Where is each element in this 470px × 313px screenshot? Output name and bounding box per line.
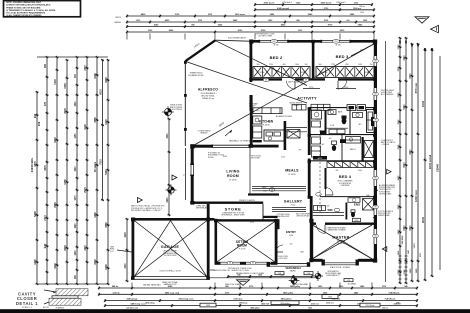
svg-text:SOLID CORE: SOLID CORE	[278, 256, 288, 258]
svg-text:FL 47 86: FL 47 86	[239, 249, 246, 251]
hip diagonal to living corner	[193, 43, 376, 146]
window tag W16 bed2	[271, 39, 278, 43]
survey symbol mid-left	[168, 187, 175, 194]
svg-text:900: 900	[44, 63, 47, 68]
svg-text:4060: 4060	[93, 259, 97, 265]
wall: store west stub	[207, 204, 210, 219]
tag oval 1	[263, 78, 269, 82]
wall: sitting east	[275, 219, 278, 264]
svg-text:10910: 10910	[423, 100, 425, 107]
svg-text:FL 46 86: FL 46 86	[288, 174, 295, 176]
svg-text:TO LOCAL AUTHORITY REQUIREMENT: TO LOCAL AUTHORITY REQUIREMENTS	[6, 12, 46, 15]
svg-text:3440: 3440	[54, 263, 57, 269]
sitting diagonals	[217, 222, 275, 262]
living wall dim line	[185, 148, 187, 200]
wall: gallery/meals stub	[248, 193, 279, 195]
garage door lines	[134, 276, 207, 278]
svg-text:3690: 3690	[104, 77, 108, 83]
svg-text:3130: 3130	[167, 133, 169, 139]
tag oval 8	[373, 234, 379, 238]
svg-text:FL 46 86: FL 46 86	[229, 179, 236, 181]
svg-text:TINTED GLASS: TINTED GLASS	[379, 192, 392, 195]
svg-text:1930: 1930	[410, 268, 412, 274]
gallery shelf lines	[252, 188, 306, 190]
svg-text:DETAIL 1: DETAIL 1	[16, 301, 38, 306]
bottom black border bar	[0, 309, 470, 313]
svg-text:1430 keep: 1430 keep	[239, 302, 248, 305]
bed4 robe row	[327, 162, 374, 168]
svg-text:3640: 3640	[53, 137, 57, 143]
meals west bulkhead line	[249, 148, 251, 194]
svg-text:side bdry road: side bdry road	[126, 307, 138, 309]
svg-text:2930: 2930	[64, 108, 67, 114]
wall: entry east stub	[278, 219, 280, 229]
wall: bath south	[309, 134, 374, 136]
svg-text:1630: 1630	[328, 297, 332, 299]
tag oval 6	[373, 176, 379, 180]
svg-text:W9: W9	[374, 94, 376, 96]
svg-text:890: 890	[346, 64, 349, 66]
wall: garage north	[132, 218, 215, 221]
svg-text:W9: W9	[374, 178, 376, 180]
bed2 door arc	[287, 81, 296, 90]
wall: store east	[262, 204, 264, 220]
bath top cupboards	[311, 104, 330, 110]
svg-text:2980: 2980	[54, 202, 57, 208]
svg-text:4140: 4140	[124, 232, 127, 238]
right dim line top blobs	[399, 41, 401, 44]
tag oval gallery	[269, 188, 275, 192]
svg-text:100 altars: 100 altars	[94, 161, 97, 172]
wall: living north	[191, 145, 213, 148]
wall: bed4 west	[325, 168, 327, 189]
svg-text:SPLAY: SPLAY	[208, 156, 214, 159]
svg-text:1210: 1210	[414, 243, 416, 249]
bath fixtures	[367, 110, 375, 133]
dashed wall line	[319, 122, 321, 214]
svg-text:730 mc: 730 mc	[382, 307, 388, 309]
svg-text:MASTER: MASTER	[332, 235, 349, 239]
svg-text:KITCHEN: KITCHEN	[259, 120, 274, 124]
svg-text:W9: W9	[374, 61, 376, 63]
svg-text:19c SETDOWN: 19c SETDOWN	[164, 255, 177, 257]
tag box dcb 3	[344, 279, 353, 282]
svg-text:W9: W9	[305, 80, 307, 82]
svg-text:4200 bed 2: 4200 bed 2	[336, 2, 345, 4]
wall: bed2/bed3 divider	[312, 42, 315, 78]
wall: sitting west	[215, 219, 218, 264]
svg-text:6510: 6510	[99, 89, 102, 95]
svg-text:7140 Woods: 7140 Woods	[366, 305, 375, 307]
svg-text:3490: 3490	[93, 73, 97, 79]
svg-text:2 FOOTINGS: 2 FOOTINGS	[170, 109, 182, 111]
wall: below bedrooms	[250, 78, 283, 80]
svg-text:1230: 1230	[75, 250, 77, 256]
svg-text:4700 bed 3: 4700 bed 3	[282, 2, 291, 4]
svg-text:W20: W20	[355, 220, 359, 222]
svg-text:W9: W9	[265, 80, 267, 82]
svg-text:22610 overall: 22610 overall	[429, 155, 432, 170]
svg-text:1450: 1450	[295, 64, 299, 66]
activity dim 2730	[336, 88, 356, 90]
svg-text:4550: 4550	[93, 117, 97, 123]
svg-text:BED 3: BED 3	[336, 54, 349, 59]
svg-text:2630: 2630	[85, 245, 87, 251]
svg-text:4120: 4120	[104, 119, 108, 125]
svg-text:4870: 4870	[43, 165, 47, 171]
gallery shelf lines low	[272, 207, 306, 209]
svg-text:890: 890	[191, 25, 194, 27]
master tag W20	[353, 218, 361, 221]
svg-text:890: 890	[283, 64, 286, 66]
alfresco left edge	[184, 61, 186, 146]
svg-text:940 do: 940 do	[112, 285, 119, 288]
svg-text:W9: W9	[374, 120, 376, 122]
wall: garage east	[207, 218, 210, 280]
svg-text:2030: 2030	[85, 65, 87, 71]
svg-text:1450: 1450	[358, 64, 362, 66]
svg-text:ROOM: ROOM	[237, 244, 247, 248]
alfresco pier dim line	[168, 119, 170, 215]
svg-text:2110 ens: 2110 ens	[326, 303, 334, 305]
svg-text:1630: 1630	[75, 166, 77, 172]
svg-text:SHELVING UNIT: SHELVING UNIT	[277, 216, 290, 218]
wall: ens/wir divider	[346, 203, 348, 220]
svg-text:4L 940: 4L 940	[335, 45, 340, 47]
svg-text:1) BRICK VNR DWELLING (FOOTING: 1) BRICK VNR DWELLING (FOOTINGS/SLAB &	[6, 4, 51, 7]
wall: sitting north	[215, 219, 278, 221]
svg-text:ENTRY: ENTRY	[286, 230, 296, 234]
svg-text:900: 900	[329, 138, 332, 140]
svg-text:5480 living room: 5480 living room	[131, 303, 146, 306]
wall: sitting south (window)	[215, 262, 221, 265]
svg-text:3400 gallery: 3400 gallery	[281, 298, 293, 301]
svg-text:SUN: SUN	[289, 235, 294, 237]
wall: ens north	[320, 196, 374, 198]
right leader lines	[374, 190, 378, 192]
svg-text:ALL OPENINGS: ALL OPENINGS	[381, 93, 394, 96]
svg-text:OVERSIZE: OVERSIZE	[340, 185, 350, 187]
svg-text:21940 BRL: 21940 BRL	[30, 157, 34, 172]
triangle symbol veranda	[237, 280, 250, 286]
tag oval 7	[373, 205, 379, 209]
svg-text:1450: 1450	[74, 133, 77, 139]
svg-text:2110 ens: 2110 ens	[311, 304, 319, 306]
living north sill blocks	[212, 145, 214, 148]
tag oval 3	[373, 59, 379, 63]
svg-text:4140 along: 4140 along	[145, 302, 154, 305]
svg-text:3400 gallery: 3400 gallery	[280, 302, 289, 305]
svg-text:1730: 1730	[398, 44, 400, 50]
svg-text:2310: 2310	[398, 119, 400, 125]
svg-text:COMPLIANCE PT: COMPLIANCE PT	[326, 274, 340, 277]
svg-text:5140: 5140	[403, 104, 406, 110]
garage width dim line	[126, 219, 128, 281]
svg-text:2710: 2710	[44, 215, 47, 221]
svg-text:GALLERY: GALLERY	[284, 200, 303, 204]
svg-text:1110: 1110	[75, 223, 77, 229]
bottom dimension string block	[99, 287, 417, 289]
svg-text:1640: 1640	[74, 101, 77, 107]
svg-text:3470: 3470	[397, 175, 400, 181]
svg-text:2730: 2730	[398, 92, 400, 98]
wall: entry north	[263, 216, 278, 218]
svg-text:1210 do: 1210 do	[112, 292, 120, 294]
gas leader	[117, 250, 132, 252]
svg-text:3640: 3640	[358, 170, 362, 172]
kitchen fixtures left	[253, 116, 262, 124]
svg-text:FL 46: FL 46	[291, 205, 296, 207]
wall junction blobs	[249, 40, 253, 44]
svg-text:11910: 11910	[423, 216, 425, 223]
svg-text:900: 900	[257, 64, 260, 66]
wall: living west	[191, 145, 194, 165]
svg-text:GARAGE: GARAGE	[161, 245, 180, 249]
robe row bed3	[316, 67, 374, 78]
svg-text:+ CEILING: + CEILING	[381, 144, 390, 146]
boundary line right of wall	[385, 41, 387, 282]
wall: right outer (with windows)	[374, 40, 377, 56]
wall: living south / store north	[191, 202, 264, 204]
svg-text:SCALE 1:5: SCALE 1:5	[22, 306, 33, 309]
svg-text:7140 Woods: 7140 Woods	[389, 291, 400, 294]
svg-text:1030: 1030	[360, 12, 364, 14]
svg-text:1930: 1930	[416, 268, 418, 274]
wall: garage west	[132, 218, 135, 280]
wall: bath divider 2	[349, 108, 351, 135]
svg-text:4140: 4140	[403, 55, 406, 61]
bed3 leader to corner	[351, 44, 374, 56]
svg-text:4390: 4390	[33, 259, 37, 265]
ens fixtures	[363, 199, 374, 211]
wall: bedrooms top (with windows)	[250, 40, 260, 43]
svg-text:1030: 1030	[363, 20, 367, 22]
svg-text:948: 948	[37, 121, 41, 126]
window tag W14 bed3	[333, 39, 340, 43]
svg-text:4200 bed 2: 4200 bed 2	[321, 2, 332, 5]
svg-text:2730: 2730	[269, 64, 273, 66]
svg-text:6420: 6420	[409, 73, 412, 79]
svg-text:2630: 2630	[64, 245, 67, 251]
wall: kitchen east	[284, 121, 287, 150]
svg-text:6310: 6310	[410, 225, 412, 231]
tag oval 5	[373, 118, 379, 122]
svg-text:2170 door: 2170 door	[234, 299, 243, 301]
svg-text:4700 bed 3: 4700 bed 3	[264, 2, 275, 5]
svg-text:4140 garage: 4140 garage	[127, 298, 138, 301]
tag oval 10	[250, 261, 256, 265]
tag oval 9	[227, 261, 233, 265]
bath appliance boxes	[347, 105, 356, 111]
triangle marker right mid	[387, 169, 391, 174]
svg-text:4390: 4390	[93, 212, 97, 218]
svg-text:FRAME TO ENG. DET. BY BUILDER): FRAME TO ENG. DET. BY BUILDER)	[6, 6, 40, 9]
triangle marker right low	[382, 247, 386, 252]
top dimension string block	[255, 4, 372, 6]
svg-text:3160: 3160	[104, 264, 108, 270]
svg-text:2140: 2140	[403, 269, 406, 275]
wir robe lines	[313, 215, 344, 217]
svg-text:920: 920	[327, 205, 330, 207]
svg-text:5480 galley: 5480 galley	[250, 306, 259, 309]
bed3 door arc	[338, 81, 347, 90]
svg-text:4550: 4550	[104, 222, 108, 228]
svg-text:4140: 4140	[223, 156, 227, 158]
bed4 door arc	[326, 188, 334, 196]
svg-text:BATH 2: BATH 2	[350, 148, 356, 151]
svg-text:6010: 6010	[404, 162, 406, 168]
svg-text:PAVED: PAVED	[290, 269, 297, 272]
appliance black box	[320, 131, 326, 136]
svg-text:STACK DOOR + SCREEN: STACK DOOR + SCREEN	[330, 266, 351, 269]
tag box dcb 1	[275, 272, 284, 275]
robe row bed2	[253, 67, 310, 78]
master diagonals	[312, 225, 372, 259]
svg-text:8310: 8310	[410, 149, 412, 155]
svg-text:BED 4: BED 4	[339, 175, 352, 179]
svg-text:280: 280	[336, 170, 339, 172]
svg-text:FL 46 86: FL 46 86	[262, 125, 269, 127]
svg-text:W16 OPENING ARCH: W16 OPENING ARCH	[228, 37, 247, 40]
svg-text:4L 930: 4L 930	[273, 45, 278, 47]
svg-text:ENS: ENS	[354, 202, 360, 206]
left dimension string block	[36, 92, 38, 284]
svg-text:6340 overall: 6340 overall	[277, 7, 289, 10]
svg-text:940: 940	[290, 243, 293, 245]
dot marker living	[250, 140, 252, 142]
svg-text:UNDER BEAM: UNDER BEAM	[378, 214, 390, 217]
svg-text:STORE: STORE	[225, 207, 242, 212]
svg-text:FL 46 86: FL 46 86	[338, 243, 345, 245]
alfresco up arrow	[225, 130, 232, 136]
svg-text:W9: W9	[252, 263, 254, 265]
svg-text:SQUARES 35 MIL: SQUARES 35 MIL	[188, 74, 204, 77]
entry door arc	[276, 245, 283, 252]
svg-text:PAVED 45 sq: PAVED 45 sq	[202, 97, 213, 100]
svg-text:970: 970	[44, 101, 47, 106]
wall: activity left segment	[250, 95, 253, 111]
svg-text:3030 mans: 3030 mans	[235, 14, 246, 16]
kitchen island bench	[264, 130, 284, 141]
wall: alfresco corner diagonal	[185, 40, 215, 61]
svg-text:2110: 2110	[398, 269, 400, 274]
svg-text:2610: 2610	[398, 229, 400, 235]
svg-text:1090: 1090	[316, 156, 320, 158]
svg-text:2970: 2970	[84, 187, 87, 193]
wall: master bottom	[310, 259, 323, 262]
svg-text:ACTIVITY: ACTIVITY	[297, 96, 317, 101]
svg-text:928 9RH: 928 9RH	[402, 235, 404, 244]
wall: bath north	[309, 107, 374, 109]
svg-text:900: 900	[305, 64, 308, 66]
svg-text:FLASHING: FLASHING	[56, 307, 65, 310]
svg-text:6310: 6310	[404, 225, 406, 231]
svg-text:GARAGE DOOR: GARAGE DOOR	[164, 283, 178, 286]
svg-text:3190: 3190	[84, 124, 87, 130]
survey symbol veranda	[315, 273, 321, 279]
svg-text:W9: W9	[229, 263, 231, 265]
svg-text:W16: W16	[272, 41, 275, 43]
tag oval 2	[303, 78, 309, 82]
svg-text:4700 living room: 4700 living room	[179, 298, 194, 301]
svg-text:3) ALL CABINET WORK BY OWNERS: 3) ALL CABINET WORK BY OWNERS	[6, 14, 42, 17]
svg-text:2210: 2210	[398, 204, 400, 210]
svg-text:1830: 1830	[300, 251, 304, 253]
wall: master top	[325, 223, 374, 225]
svg-text:ALCOR: ALCOR	[43, 306, 50, 309]
svg-text:5490: 5490	[33, 211, 37, 217]
svg-text:1230: 1230	[54, 79, 57, 85]
survey symbol porch	[291, 277, 297, 283]
svg-text:PTY: PTY	[257, 111, 260, 113]
tag box dcb 2	[304, 272, 313, 275]
triangle marker top right 2	[431, 25, 439, 32]
activity cupboard row	[292, 105, 306, 111]
porch outline	[210, 277, 315, 279]
svg-text:1370: 1370	[75, 195, 77, 201]
wall: porch south	[267, 262, 310, 264]
wall: mid block divider	[341, 135, 343, 161]
svg-text:930: 930	[33, 113, 37, 118]
svg-text:RECESSED THIS FACE + CONDUIT: RECESSED THIS FACE + CONDUIT	[131, 209, 162, 212]
svg-text:2) TREATMENT TO AS3660.1 & TO: 2) TREATMENT TO AS3660.1 & TO BCA, ALL W…	[6, 9, 56, 12]
triangle marker garage	[138, 198, 143, 203]
svg-text:VERANDAH: VERANDAH	[285, 266, 300, 270]
svg-text:DOOR 1020: DOOR 1020	[279, 258, 288, 260]
svg-text:GUTTER + RWH: GUTTER + RWH	[258, 36, 272, 38]
mid room fixtures	[332, 145, 336, 151]
svg-text:750: 750	[370, 64, 373, 66]
wall: bed4 top	[309, 160, 374, 162]
svg-text:2330: 2330	[125, 263, 127, 269]
svg-text:W9: W9	[374, 207, 376, 209]
svg-text:910: 910	[346, 20, 349, 22]
svg-text:NATURALLY 14 STRATUM: NATURALLY 14 STRATUM	[229, 139, 251, 142]
svg-text:1590: 1590	[64, 83, 67, 89]
cavity detail drawing	[56, 289, 88, 296]
fixture tag ovals mid	[316, 193, 322, 197]
svg-text:BRICK: BRICK	[116, 17, 122, 19]
svg-text:2510: 2510	[398, 144, 400, 150]
svg-text:2110: 2110	[281, 156, 285, 158]
svg-text:21940: 21940	[436, 164, 440, 172]
svg-text:4450: 4450	[63, 179, 67, 185]
alfresco top edge line	[216, 40, 250, 41]
svg-text:PAVING: PAVING	[114, 21, 121, 24]
svg-text:SLAB 85 THK TO ENG: SLAB 85 THK TO ENG	[231, 269, 249, 272]
svg-text:7510: 7510	[99, 159, 102, 165]
svg-text:2730: 2730	[360, 49, 364, 51]
svg-text:SET DOWN: SET DOWN	[251, 158, 260, 160]
garage diagonals	[134, 221, 207, 277]
svg-text:1 SHELF: 1 SHELF	[249, 106, 255, 108]
svg-text:8700 over: 8700 over	[415, 83, 418, 94]
svg-text:3400 galley: 3400 galley	[283, 291, 294, 294]
svg-text:L'DRY: L'DRY	[315, 119, 321, 121]
svg-text:5110: 5110	[104, 169, 108, 175]
right dimension string block	[399, 38, 401, 283]
svg-text:W9: W9	[374, 236, 376, 238]
svg-text:1430 mc: 1430 mc	[359, 6, 365, 8]
activity dim 1770	[303, 88, 320, 90]
triangle marker alfresco	[172, 175, 177, 180]
svg-text:ROOM: ROOM	[227, 174, 239, 178]
svg-text:1636: 1636	[206, 305, 210, 307]
svg-text:HIGH BENCH + SHELF OVER: HIGH BENCH + SHELF OVER	[221, 215, 245, 217]
svg-text:1430 hall: 1430 hall	[261, 303, 269, 306]
svg-text:900: 900	[319, 64, 322, 66]
svg-text:MEALS: MEALS	[285, 169, 299, 173]
